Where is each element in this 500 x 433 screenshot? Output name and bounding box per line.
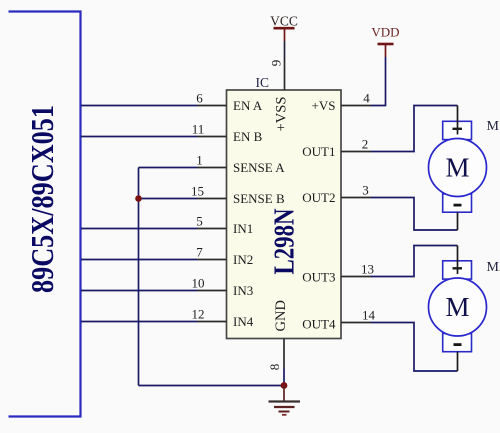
svg-text:6: 6 [196,91,203,106]
svg-text:12: 12 [192,307,205,322]
motor M1 minus sign [454,204,462,207]
motor M2 minus terminal stub [457,352,459,371]
svg-text:IC: IC [256,75,270,90]
ground bar 3 [279,411,290,413]
svg-text:13: 13 [361,262,374,277]
motor M1 plus terminal box [443,121,472,139]
motor M2 minus sign [454,343,462,346]
motor M2 plus terminal box [443,261,472,279]
motor M2 plus sign tick [453,267,463,269]
VCC bar [274,27,295,30]
svg-text:11: 11 [192,122,205,137]
svg-text:1: 1 [196,153,203,168]
motor M1 body circle [429,139,487,197]
wire OUT4 to motor M2 minus [371,323,458,372]
wire pin 8 to ground [283,369,285,386]
svg-text:M1: M1 [487,119,500,134]
pin 11 line [197,136,227,138]
svg-text:VDD: VDD [371,25,399,40]
wire VDD to +VS [371,57,386,106]
svg-text:SENSE B: SENSE B [233,191,285,206]
svg-text:89C5X/89CX051: 89C5X/89CX051 [24,105,60,293]
IC U1 L298N body [227,90,342,339]
svg-text:OUT3: OUT3 [302,269,335,284]
wire IN1 [81,228,197,230]
svg-text:M: M [445,152,469,182]
svg-text:OUT2: OUT2 [302,190,335,205]
ground bar 4 [282,414,287,416]
svg-text:VCC: VCC [270,14,298,29]
svg-text:3: 3 [362,183,369,198]
wire VCC to pin 9 [284,41,286,60]
wire EN B [81,136,197,138]
pin 4 line [341,105,371,107]
svg-text:5: 5 [196,214,203,229]
svg-text:9: 9 [269,60,284,67]
wire EN A [81,105,197,107]
wire SENSE B [139,198,198,200]
VDD bar [378,43,394,46]
pin 13 line [341,276,371,278]
motor M2 body circle [429,278,487,336]
svg-text:+VSS: +VSS [274,97,290,132]
svg-text:SENSE A: SENSE A [233,160,285,175]
motor M2 minus terminal box [443,333,472,351]
svg-text:15: 15 [191,184,204,199]
svg-text:OUT4: OUT4 [302,316,336,331]
ground symbol stem [283,386,285,402]
VCC stub [284,28,286,41]
svg-text:IN1: IN1 [233,221,253,236]
svg-text:+VS: +VS [312,98,336,113]
ground bar 2 [274,406,295,408]
motor M1 minus terminal stub [457,212,459,230]
pin 12 line [197,321,227,323]
svg-text:L298N: L298N [270,209,301,275]
pin 14 line [341,322,371,324]
svg-text:GND: GND [273,300,289,331]
motor M1 minus terminal box [443,194,472,212]
svg-text:7: 7 [196,245,203,260]
motor M2 plus terminal stub [457,246,459,275]
wire sense bus to ground [139,385,285,387]
pin 5 line [197,228,227,230]
svg-text:4: 4 [363,91,370,106]
svg-text:M2: M2 [487,260,500,275]
wire SENSE A [139,167,198,169]
wire OUT2 to motor M1 minus [371,198,458,231]
svg-text:EN A: EN A [233,98,263,113]
pin 8 line (GND) [283,339,285,369]
pin 3 line [341,197,371,199]
svg-text:IN2: IN2 [233,252,253,267]
svg-text:10: 10 [192,276,205,291]
svg-text:IN3: IN3 [233,283,253,298]
junction dot ground [281,382,288,389]
pin 15 line [197,198,227,200]
wire IN3 [81,290,197,292]
svg-text:M: M [445,292,469,322]
pin 7 line [197,259,227,261]
svg-text:IN4: IN4 [233,314,254,329]
wire sense bus vertical [138,168,140,386]
junction dot sense bus [135,195,142,202]
MCU block 89C5X/89CX051 [9,12,81,417]
ground bar 1 [269,400,301,402]
wire OUT1 to motor M1 plus [371,106,458,152]
pin 6 line [197,105,227,107]
pin 10 line [197,290,227,292]
wire IN4 [81,321,197,323]
pin 9 line [284,60,286,90]
svg-text:8: 8 [267,364,282,371]
pin 2 line [341,151,371,153]
VDD stub [385,44,387,57]
pin 1 line [197,167,227,169]
motor M1 plus sign tick [453,128,463,130]
wire OUT3 to motor M2 plus [371,246,458,277]
svg-text:14: 14 [362,308,376,323]
svg-text:EN B: EN B [233,129,263,144]
svg-text:OUT1: OUT1 [302,144,335,159]
svg-text:2: 2 [362,137,369,152]
motor M1 plus terminal stub [457,106,459,135]
wire IN2 [81,259,197,261]
